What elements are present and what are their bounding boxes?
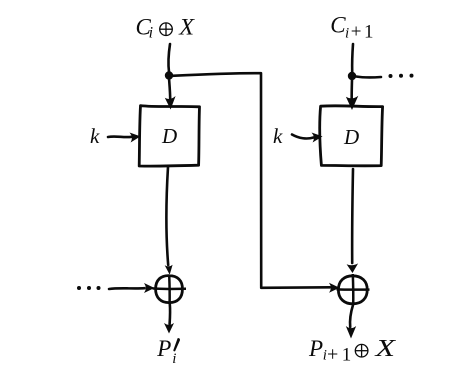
node junction left (165, 71, 173, 79)
svg-text:1: 1 (364, 22, 374, 43)
block D right (decryption box) (320, 106, 383, 166)
block D left (decryption box) (139, 106, 199, 167)
xor gate right (337, 274, 370, 305)
label P'i (bottom-left output) (156, 336, 180, 367)
svg-text:X: X (178, 14, 195, 39)
xor symbol in bottom-right label (355, 344, 368, 357)
wire junction right stub to dots (356, 75, 381, 79)
wire right xor output down with arrowhead (346, 305, 356, 339)
svg-text:i: i (345, 25, 349, 41)
svg-text:D: D (161, 124, 177, 148)
svg-text:X: X (374, 336, 397, 362)
svg-text:k: k (90, 124, 100, 148)
svg-text:i: i (172, 351, 176, 367)
wire from Ci+1 down to junction (351, 44, 354, 72)
wire from Ci⊕X down to junction (168, 44, 170, 72)
svg-text:+: + (327, 343, 338, 365)
wire right D box down to right xor with arrowhead (347, 169, 359, 273)
wire k left into box with arrowhead (108, 131, 141, 142)
dots ellipsis right of junction (389, 74, 414, 78)
wire right junction to right D box with arrowhead (346, 80, 358, 110)
xor gate left (153, 275, 187, 304)
wire from dots into left xor with arrowhead (109, 283, 155, 293)
wire left D box down to left xor with arrowhead (165, 167, 173, 275)
node junction right (348, 72, 356, 80)
label Pi+1 (bottom-right output) (308, 336, 351, 365)
dots ellipsis left of left xor (77, 286, 101, 290)
svg-text:k: k (273, 124, 283, 148)
svg-text:D: D (343, 125, 359, 149)
wire k right into box with arrowhead (292, 131, 323, 142)
label Ci+1 (top-right input label) (330, 13, 373, 43)
svg-text:P: P (308, 336, 323, 361)
svg-text:+: + (351, 22, 362, 43)
xor symbol in top-left label (160, 23, 173, 36)
svg-text:P: P (156, 336, 171, 361)
svg-text:i: i (149, 24, 153, 41)
svg-text:C: C (330, 13, 346, 38)
label Ci (top-left input label) (136, 15, 154, 42)
wire junction to left D box with arrowhead (165, 78, 176, 110)
wire left xor output down with arrowhead (164, 304, 174, 334)
arrowhead into right xor from branch wire (329, 283, 340, 293)
wire branch from left junction to right xor (over the top) (172, 73, 330, 288)
svg-text:1: 1 (342, 344, 352, 365)
